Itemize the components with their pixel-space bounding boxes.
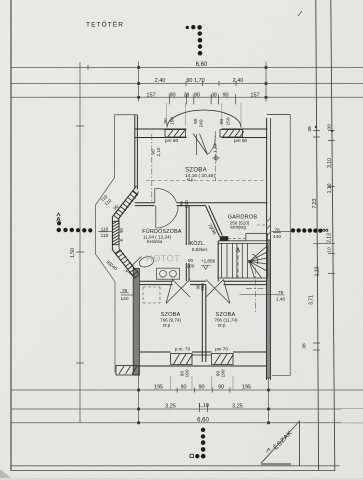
svg-text:90: 90 [163,118,169,124]
svg-text:sz.p.: sz.p. [218,323,227,328]
svg-text:210: 210 [184,200,189,208]
svg-text:pm 60: pm 60 [165,138,179,144]
svg-text:KÖZL.: KÖZL. [190,240,206,247]
svg-text:+1,858: +1,858 [201,259,216,264]
svg-text:2,13: 2,13 [327,233,333,243]
svg-text:A: A [56,217,61,224]
svg-text:ΗΘΤΟΤ: ΗΘΤΟΤ [146,254,180,265]
svg-text:90: 90 [169,92,175,98]
svg-text:SZOBA: SZOBA [185,168,207,174]
svg-text:90: 90 [219,119,225,125]
arc bay top [167,110,241,128]
stairs [218,234,267,278]
plan [96,115,291,376]
svg-text:1,50: 1,50 [70,248,76,258]
leader lines small dims [98,231,292,295]
top wall double lines [135,128,187,130]
svg-text:190: 190 [185,369,191,377]
koezl left wall [185,206,187,245]
svg-text:78: 78 [274,228,280,234]
bottom wall [139,351,171,353]
svg-text:2,10: 2,10 [156,147,161,156]
svg-text:3,71: 3,71 [309,295,315,305]
svg-text:110: 110 [101,227,109,233]
svg-text:38: 38 [302,343,308,349]
bay inner wall [112,186,136,281]
svg-text:78: 78 [122,288,128,294]
svg-text:10: 10 [327,247,333,253]
svg-text:2,40: 2,40 [233,78,244,84]
svg-text:3,10: 3,10 [327,158,333,168]
wall fills dark bands [133,218,270,378]
svg-text:p.m. 70: p.m. 70 [175,347,191,352]
rooms top wall [133,280,173,282]
svg-text:6,92ker.: 6,92ker. [192,247,208,252]
stairs left wall [217,241,219,281]
svg-text:90: 90 [222,92,228,98]
room doors X right [206,280,230,304]
rotated small dims [100,117,232,378]
svg-text:1,40: 1,40 [276,297,286,303]
svg-text:38: 38 [211,92,217,98]
svg-text:sz.p.: sz.p. [163,323,172,328]
svg-text:Kerámia: Kerámia [147,239,163,244]
svg-text:90 1,70: 90 1,70 [186,78,204,84]
svg-text:3,25: 3,25 [165,404,176,410]
svg-text:78: 78 [278,290,284,296]
svg-text:1,10: 1,10 [327,183,333,193]
svg-text:E: E [119,238,124,241]
bath fixtures [138,255,180,279]
svg-text:szönyeg: szönyeg [230,225,246,230]
doors [126,134,230,304]
svg-text:195: 195 [242,385,251,391]
left wall band upper [134,115,136,188]
svg-text:150: 150 [170,117,176,125]
divider wall rooms [201,285,203,362]
misc tiny [298,11,302,16]
bath door to szoba top [154,189,156,203]
svg-text:6,60: 6,60 [196,62,208,68]
svg-text:38: 38 [184,92,190,98]
right wall band [266,118,268,380]
svg-text:st.p: st.p [187,177,194,182]
svg-text:240: 240 [199,119,205,127]
door under arc top [196,134,198,155]
north arrow [261,421,300,466]
hatched windows [112,130,244,376]
svg-text:90: 90 [180,385,186,391]
svg-text:90: 90 [150,149,155,155]
svg-text:90: 90 [198,385,204,391]
svg-text:2,40: 2,40 [155,78,166,84]
door swing into bathroom [155,206,157,228]
svg-text:90: 90 [188,258,194,263]
room doors X left [166,280,190,304]
svg-text:195: 195 [154,385,163,391]
svg-text:90: 90 [119,228,124,233]
svg-text:90: 90 [193,118,199,124]
svg-text:6,60: 6,60 [197,417,209,423]
svg-text:90: 90 [218,385,224,391]
svg-text:110: 110 [101,233,109,239]
level mark [201,266,211,270]
svg-text:150: 150 [226,117,232,125]
wc door diagonal [126,257,142,272]
svg-text:7,23: 7,23 [312,198,318,208]
gardrob diagonal wall [206,206,220,237]
svg-text:38: 38 [307,126,313,132]
svg-text:140: 140 [120,296,128,302]
svg-text:pm 70: pm 70 [215,347,228,352]
svg-text:200: 200 [200,283,205,291]
svg-text:200: 200 [187,263,195,268]
chimney top right [267,114,291,116]
svg-text:1,10: 1,10 [198,403,209,409]
svg-text:157: 157 [146,92,155,98]
svg-text:3,25: 3,25 [232,404,243,410]
svg-text:30: 30 [327,124,333,130]
svg-text:pm 60: pm 60 [234,138,248,144]
room labels [142,138,257,352]
svg-text:TETŐTÉR: TETŐTÉR [86,20,124,29]
svg-text:190: 190 [221,369,227,377]
svg-text:140: 140 [273,234,281,240]
svg-text:1,10: 1,10 [315,266,321,276]
svg-text:1,20: 1,20 [213,144,219,154]
svg-text:157: 157 [250,92,259,98]
dark door blocks [220,236,229,241]
dash-dot headroom lines [143,131,267,312]
stacked small dims [101,227,286,303]
svg-text:90: 90 [194,92,200,98]
wall szoba-bottom y202 [135,202,155,204]
